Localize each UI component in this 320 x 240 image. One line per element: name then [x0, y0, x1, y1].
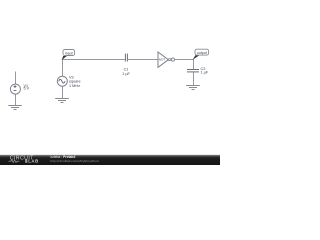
- svg-text:NOT: NOT: [159, 58, 166, 62]
- svg-text:1 MHz: 1 MHz: [69, 84, 80, 88]
- svg-text:output: output: [197, 51, 207, 55]
- svg-text:input: input: [65, 51, 73, 55]
- svg-text:1 µF: 1 µF: [201, 71, 209, 75]
- svg-text:V3: V3: [69, 75, 74, 79]
- svg-text:1 µF: 1 µF: [122, 72, 130, 76]
- svg-text:http://circuitlab.com/c/bqhj/z: http://circuitlab.com/c/bqhj/zywbro4: [51, 159, 99, 163]
- svg-text:LAB: LAB: [28, 159, 39, 164]
- svg-text:5 V: 5 V: [24, 87, 30, 91]
- svg-text:square: square: [69, 80, 81, 84]
